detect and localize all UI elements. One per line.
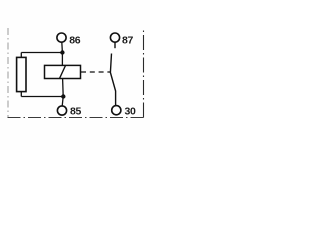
svg-text:87: 87 <box>122 35 133 47</box>
svg-text:85: 85 <box>70 106 81 118</box>
svg-text:86: 86 <box>69 35 80 47</box>
svg-text:30: 30 <box>125 106 136 118</box>
